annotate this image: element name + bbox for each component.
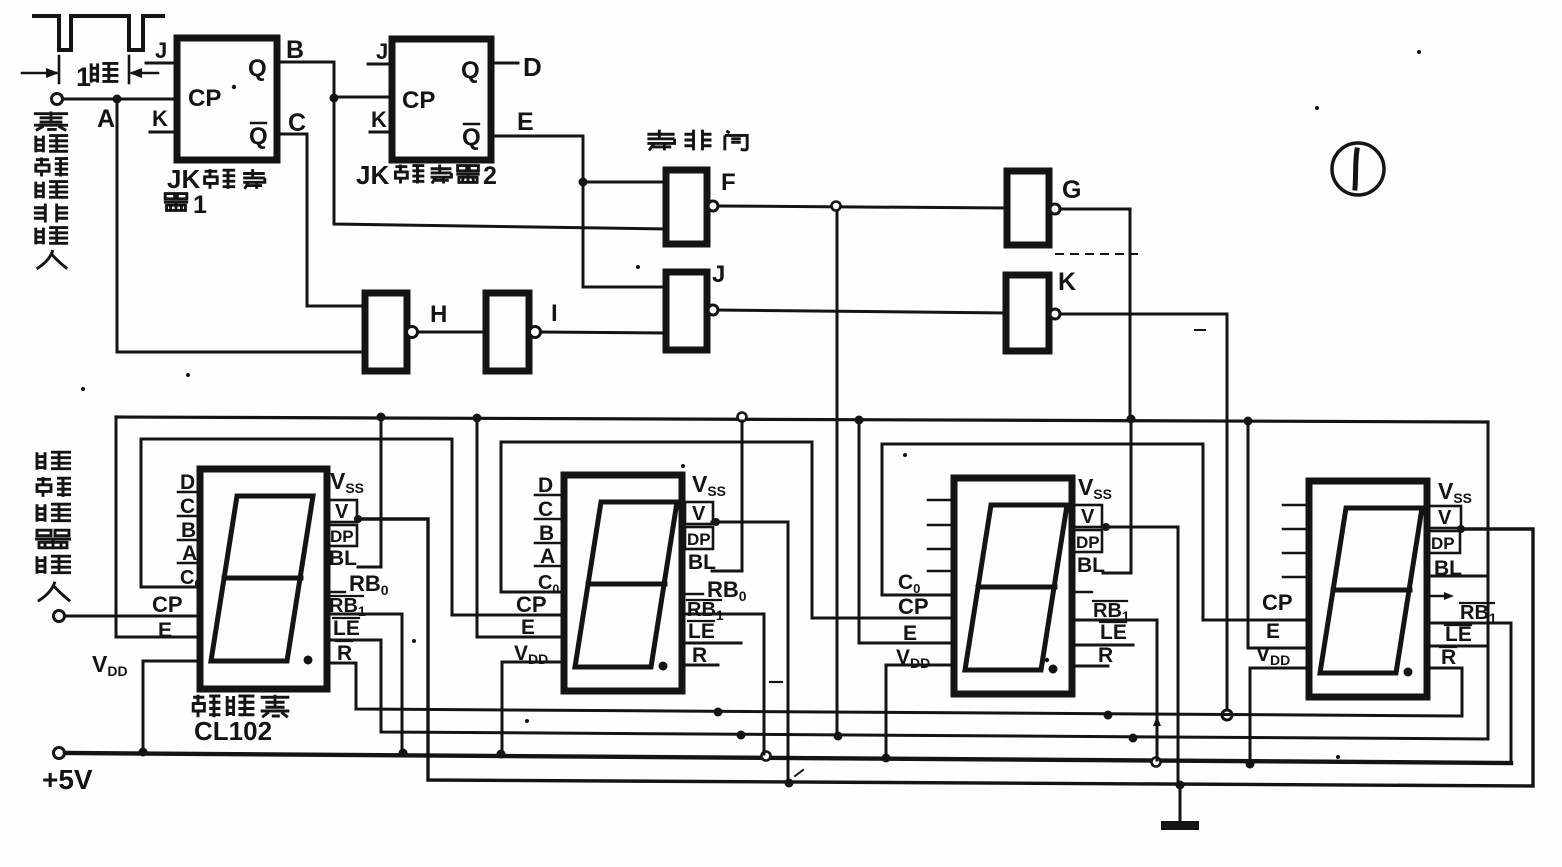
svg-text:V: V <box>1081 506 1095 528</box>
svg-text:E: E <box>903 622 917 645</box>
svg-text:J: J <box>376 39 388 64</box>
svg-text:DP: DP <box>1076 533 1100 552</box>
V bus junction display2 <box>785 779 794 788</box>
display4 BL label <box>1434 557 1462 580</box>
display1 LE label <box>333 617 360 640</box>
NAND gate H box <box>365 293 407 371</box>
wire C from U1 Qbar to gate H upper input <box>277 109 365 306</box>
wire H to I <box>418 331 486 334</box>
svg-text:1: 1 <box>76 62 91 92</box>
gate I output bubble <box>530 327 541 338</box>
svg-text:LE: LE <box>1100 621 1127 644</box>
input pulse waveform (1-second reference pulses) <box>34 16 163 50</box>
svg-text:CP: CP <box>898 594 929 619</box>
display1 RB1 label <box>329 595 366 619</box>
display2 RB1 label <box>687 599 724 623</box>
gate F output bubble <box>708 201 718 211</box>
LE bus line B <box>327 640 1488 743</box>
svg-text:VDD: VDD <box>92 651 128 679</box>
U2 Qbar label <box>462 124 481 151</box>
wire J output to gate K input <box>718 310 1006 313</box>
display1 RB0 label <box>327 571 389 598</box>
svg-text:C: C <box>180 495 195 518</box>
gate K output bubble <box>1050 309 1060 319</box>
R bus junction display2 <box>714 708 723 717</box>
seven-segment display module CL102 #2 body <box>564 475 682 691</box>
svg-text:C: C <box>288 109 306 137</box>
display2 CP label <box>516 592 547 617</box>
+5V junction Vdd display2 <box>497 750 506 759</box>
display3 V pin box <box>1074 505 1102 528</box>
display2 Vss label <box>692 471 726 499</box>
wire V display4 corner <box>1457 525 1465 533</box>
svg-text:Q: Q <box>249 123 268 150</box>
svg-text:D: D <box>180 471 195 494</box>
svg-text:+5V: +5V <box>42 764 93 795</box>
seven-segment display module CL102 #1 body <box>200 469 327 689</box>
display1 Vss label <box>330 468 364 496</box>
display4 Vdd wire <box>1250 668 1309 764</box>
svg-text:LE: LE <box>688 620 715 643</box>
display1 BL label <box>329 547 357 570</box>
svg-text:VSS: VSS <box>1078 474 1112 502</box>
U1 Qbar label <box>249 123 268 150</box>
svg-text:V: V <box>335 501 349 523</box>
svg-text:D: D <box>538 474 553 497</box>
display3 Vdd label <box>896 646 930 671</box>
display2 R label <box>691 643 707 667</box>
display2 LE wire <box>683 642 741 645</box>
svg-text:E: E <box>517 108 534 136</box>
svg-text:R: R <box>1098 644 1113 667</box>
svg-text:BL: BL <box>1434 557 1462 580</box>
gate I label <box>551 300 558 327</box>
display4 RB0 stub arrow <box>1428 592 1454 600</box>
svg-text:CP: CP <box>152 592 183 617</box>
display3 RB1 wire <box>1072 620 1157 760</box>
display2 V pin box <box>685 502 713 525</box>
svg-text:CL102: CL102 <box>194 716 272 746</box>
display4 Vss label <box>1438 478 1472 506</box>
display4 left pin stubs <box>1283 505 1309 577</box>
+5V tap circle RB1 display3 <box>1152 758 1161 767</box>
bus right corner down to BL/LE of display 4 <box>1432 422 1488 737</box>
svg-text:A: A <box>97 105 115 133</box>
digit 8 outline #3 <box>965 505 1067 670</box>
display1 pin labels D C B A C0 <box>180 471 201 591</box>
+5V label <box>42 764 93 795</box>
node B junction dot <box>330 94 339 103</box>
svg-text:K: K <box>152 106 168 131</box>
gate H label <box>430 301 447 328</box>
E/BL bus line (top of display section) <box>116 417 1488 422</box>
NAND gate J box <box>666 272 707 350</box>
svg-text:DP: DP <box>330 527 354 546</box>
gate J label <box>712 261 725 288</box>
display3 E label <box>903 622 917 645</box>
svg-text:C0: C0 <box>898 571 920 596</box>
carry wire C0 display1 to CP display2 <box>141 439 564 615</box>
display3 C0 label <box>898 571 920 596</box>
display4 E label <box>1266 620 1280 643</box>
measured signal input terminal <box>54 611 201 622</box>
svg-text:1: 1 <box>193 191 207 219</box>
display1 Vdd wire <box>143 661 200 751</box>
seven-segment display module CL102 #4 body <box>1309 481 1427 697</box>
JK flip-flop U1 box <box>177 38 277 160</box>
svg-text:JK: JK <box>356 160 389 190</box>
input terminal: reference second pulse input <box>52 94 178 105</box>
svg-text:A: A <box>540 545 555 568</box>
decimal point #1 <box>304 656 313 665</box>
wire F output to gate G input <box>718 206 1007 208</box>
display3 RB1 label <box>1093 600 1130 624</box>
svg-text:DP: DP <box>687 530 711 549</box>
svg-text:B: B <box>181 519 196 542</box>
display1 CP label <box>152 592 183 617</box>
svg-text:B: B <box>539 522 554 545</box>
U1 pin K stub <box>150 106 177 132</box>
U2 Q label <box>461 57 480 84</box>
label CL102 <box>194 716 272 746</box>
display2 R wire <box>683 664 718 667</box>
wire A down to gate H lower input <box>117 101 365 352</box>
svg-text:BL: BL <box>1077 554 1105 577</box>
display2 Vdd wire <box>502 662 564 753</box>
decimal point #3 <box>1049 665 1058 674</box>
svg-text:J: J <box>155 38 167 63</box>
svg-text:B: B <box>286 36 304 64</box>
seven-segment display module CL102 #3 body <box>954 478 1072 694</box>
display1 R wire <box>327 662 356 665</box>
svg-text:K: K <box>1058 268 1076 296</box>
svg-text:2: 2 <box>483 162 497 190</box>
svg-text:VSS: VSS <box>692 471 726 499</box>
+5V terminal <box>54 748 1512 764</box>
wire E down to gate J upper input <box>583 184 666 287</box>
svg-text:RB0: RB0 <box>349 571 389 598</box>
svg-text:I: I <box>551 300 558 327</box>
display3 LE label <box>1100 621 1127 644</box>
svg-text:VSS: VSS <box>1438 478 1472 506</box>
label 数码管 (digit display tube) <box>193 695 289 718</box>
svg-text:H: H <box>430 301 447 328</box>
U1 Q label <box>248 55 267 82</box>
vertical label 基准秒脉冲输入 (reference second pulse input) <box>34 112 68 269</box>
wire V display2 to V bus <box>712 518 788 782</box>
bus junction G output / BL of display 3 <box>1103 415 1136 574</box>
carry wire C0 display3 to CP display4 <box>882 444 1309 620</box>
vertical label 被测信号输入 (measured signal input) <box>35 452 71 601</box>
display4 R label <box>1440 646 1456 669</box>
label JK触发器2 (JK flip-flop 2) <box>356 160 497 190</box>
display3 LE wire <box>1072 644 1133 647</box>
svg-text:BL: BL <box>688 551 716 574</box>
small arrow artifact near RB1 display3 <box>1153 716 1161 733</box>
wire I output to gate J lower input <box>541 332 666 333</box>
label JK触发器1 (JK flip-flop 1) <box>164 164 265 219</box>
gate K label <box>1058 268 1076 296</box>
display1 DP pin box <box>327 525 357 546</box>
display4 DP pin box <box>1428 531 1460 553</box>
node V display1 dot <box>354 515 362 523</box>
svg-text:CP: CP <box>402 87 435 114</box>
display2 left pin stubs D C B A <box>535 495 564 566</box>
svg-text:Q: Q <box>462 124 481 151</box>
figure number circled 1 <box>1332 143 1384 195</box>
svg-text:JK: JK <box>167 164 200 194</box>
bus tap circle to BL of display 2 <box>712 413 747 572</box>
display3 RB0 stub <box>1074 591 1092 593</box>
display3 BL label <box>1077 554 1105 577</box>
display2 RB0 label <box>685 577 747 604</box>
display3 left pin stubs <box>928 500 954 571</box>
svg-text:LE: LE <box>333 617 360 640</box>
node A junction dot <box>113 95 122 104</box>
gate H output bubble <box>407 327 418 338</box>
dashed scan artifact line <box>1056 253 1137 255</box>
display1 Vdd label <box>92 651 128 679</box>
display2 pin labels D C B A C0 <box>538 474 559 596</box>
R bus line A <box>327 663 1462 716</box>
svg-text:Q: Q <box>461 57 480 84</box>
node F tap circle <box>832 202 841 211</box>
+5V junction Vdd display1 <box>139 748 148 757</box>
svg-text:E: E <box>1266 620 1280 643</box>
gate F label <box>721 169 736 196</box>
+5V junction Vdd display3 <box>882 754 891 763</box>
decimal point #4 <box>1404 668 1413 677</box>
label 1秒 (1 second) <box>76 62 118 92</box>
U1 pin J stub <box>146 38 177 63</box>
digit 8 outline #1 <box>211 496 313 661</box>
U2 CP label <box>402 87 435 114</box>
U2 pin K stub <box>370 107 392 132</box>
NAND gate G box <box>1007 171 1049 245</box>
svg-text:CP: CP <box>516 592 547 617</box>
svg-text:VSS: VSS <box>330 468 364 496</box>
bus junction to E of display 3 <box>855 416 955 644</box>
wire B down to gate F lower input <box>334 100 666 229</box>
LE bus right end to display4 <box>1428 645 1488 648</box>
display1 RB1 wire to +5V <box>327 614 402 752</box>
display4 RB1 wire <box>1428 622 1460 625</box>
+5V tap circle RB1 display2 <box>762 752 771 761</box>
gate J output bubble <box>708 305 718 315</box>
wire V display3 down to ground <box>1102 523 1178 785</box>
display4 RB1 label <box>1460 602 1497 626</box>
display3 Vss label <box>1078 474 1112 502</box>
wire E from U2 Qbar <box>491 108 583 182</box>
R bus junction display3 <box>1104 711 1113 720</box>
gate G label <box>1062 176 1081 204</box>
svg-text:K: K <box>371 107 387 132</box>
+5V junction RB1 display1 <box>399 749 408 758</box>
decimal point #2 <box>659 662 668 671</box>
display1 left pin stubs D C B A <box>178 492 200 563</box>
display2 Vdd label <box>514 642 548 667</box>
svg-text:E: E <box>158 619 172 642</box>
bus junction to E of display 2 <box>473 414 565 638</box>
display1 E label <box>158 619 172 642</box>
display2 BL label <box>688 551 716 574</box>
JK flip-flop U2 box <box>392 39 491 160</box>
wire E to gate F upper input <box>583 181 666 184</box>
V bus junction display3 and ground stem <box>1176 781 1185 790</box>
display2 DP pin box <box>685 527 713 549</box>
bus left corner down to E pin of display 1 <box>116 417 200 637</box>
NAND gate K box <box>1006 275 1049 351</box>
svg-text:V: V <box>692 503 706 525</box>
carry wire C0 display2 to CP display3 <box>501 442 954 618</box>
svg-text:BL: BL <box>329 547 357 570</box>
NAND gate I box <box>486 293 529 371</box>
wire D stub from U2 Q <box>491 52 542 82</box>
dimension arrows and ticks for 1-second period <box>22 56 158 83</box>
svg-text:DP: DP <box>1431 534 1455 553</box>
wire F down to LE bus line <box>836 211 839 733</box>
display2 LE label <box>688 620 715 643</box>
svg-text:VDD: VDD <box>896 646 930 671</box>
gate G output bubble <box>1050 204 1060 214</box>
display1 V pin box <box>327 500 357 523</box>
+5V right end up to RB1 display4 <box>1428 623 1511 763</box>
scan speckles and stray marks <box>81 50 1421 776</box>
svg-text:J: J <box>712 261 725 288</box>
bus junction to E of display 4 <box>1244 417 1310 649</box>
display2 RB1 wire <box>683 614 764 754</box>
svg-text:G: G <box>1062 176 1081 204</box>
display3 DP pin box <box>1074 530 1102 552</box>
svg-text:E: E <box>521 616 535 639</box>
display3 R wire <box>1072 665 1108 668</box>
node E junction dot <box>579 178 588 187</box>
svg-text:R: R <box>1441 646 1456 669</box>
wire B from U1 Q to U2 CP <box>277 36 392 97</box>
svg-text:CP: CP <box>188 85 221 112</box>
V bus line D <box>356 519 1533 786</box>
svg-text:A: A <box>182 542 197 565</box>
display1 R label <box>336 641 352 665</box>
display3 Vdd wire <box>886 665 954 756</box>
U2 pin J stub <box>368 39 392 64</box>
svg-text:Q: Q <box>248 55 267 82</box>
display3 R label <box>1097 644 1113 667</box>
display3 CP label <box>898 594 929 619</box>
display2 E label <box>521 616 535 639</box>
display4 LE label <box>1445 623 1472 646</box>
svg-text:CP: CP <box>1262 590 1293 615</box>
wire G output down to E/BL bus <box>1060 209 1130 417</box>
digit 8 outline #4 <box>1320 508 1422 673</box>
svg-text:F: F <box>721 169 736 196</box>
wire K output down to line A (R bus) <box>1061 314 1232 720</box>
node A label <box>97 105 115 133</box>
+5V junction Vdd display4 <box>1246 760 1255 769</box>
label 与非门 (NAND gate) <box>647 130 747 151</box>
svg-text:C: C <box>538 498 553 521</box>
svg-text:D: D <box>523 52 542 82</box>
ground symbol <box>1161 787 1199 830</box>
display4 V pin box <box>1428 506 1461 529</box>
svg-text:LE: LE <box>1445 623 1472 646</box>
display4 Vdd label <box>1256 643 1290 668</box>
display4 CP label <box>1262 590 1293 615</box>
NAND gate F box <box>666 170 707 244</box>
bus junction to BL of display 1 <box>358 413 386 568</box>
digit 8 outline #2 <box>575 502 677 667</box>
svg-text:V: V <box>1438 507 1452 529</box>
U1 CP label <box>188 85 221 112</box>
